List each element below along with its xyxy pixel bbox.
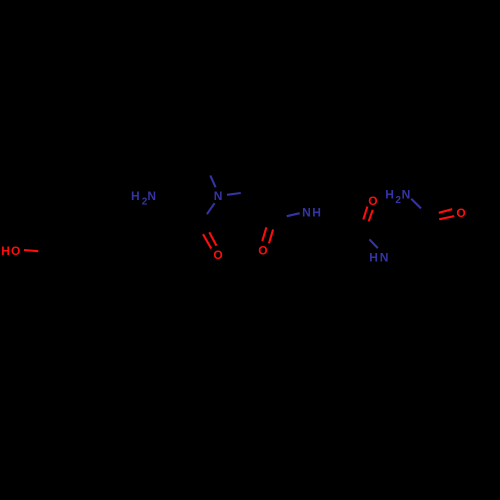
carbonyl C=O double bond 3 bbox=[363, 207, 367, 220]
svg-text:H: H bbox=[385, 187, 394, 201]
phenol HO label bbox=[1, 244, 20, 258]
carbonyl C=O double bond 2 bbox=[262, 227, 266, 241]
wire HN-C bond up-left bbox=[369, 239, 377, 248]
wire N-C(=O) bond down-left bbox=[207, 203, 215, 214]
svg-text:O: O bbox=[258, 244, 267, 258]
svg-text:N: N bbox=[302, 206, 311, 220]
svg-text:N: N bbox=[402, 187, 411, 201]
svg-text:H: H bbox=[369, 251, 378, 265]
wire O-C bond (phenol) bbox=[24, 250, 38, 251]
svg-text:H: H bbox=[312, 206, 321, 220]
terminal amide H2N label bbox=[385, 187, 410, 206]
svg-text:N: N bbox=[380, 251, 389, 265]
amide HN label bbox=[369, 251, 388, 265]
amide NH label bbox=[302, 206, 321, 220]
wire NH-C bond left bbox=[287, 213, 300, 216]
carbonyl C=O double bond 1 bbox=[203, 234, 211, 248]
svg-text:N: N bbox=[214, 189, 223, 203]
svg-text:N: N bbox=[147, 189, 156, 203]
wire N-C ring bond up-left bbox=[210, 176, 215, 188]
svg-text:O: O bbox=[456, 206, 465, 220]
svg-text:O: O bbox=[11, 244, 20, 258]
carbonyl C=O double bond 4 bbox=[439, 209, 452, 213]
wire N-C ring bond right bbox=[227, 193, 241, 195]
wire H2N-C bond down-right bbox=[411, 199, 421, 209]
amine H2N label (alpha amine) bbox=[131, 189, 156, 208]
svg-text:H: H bbox=[131, 189, 140, 203]
svg-text:O: O bbox=[213, 248, 222, 262]
svg-text:H: H bbox=[1, 244, 10, 258]
svg-text:2: 2 bbox=[395, 195, 401, 206]
svg-text:O: O bbox=[368, 194, 377, 208]
